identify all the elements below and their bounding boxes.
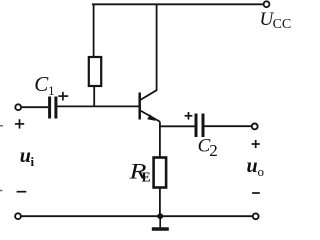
capacitor C1 (50, 97, 56, 119)
wire emitter node to C2 (160, 125, 195, 127)
wire from resistor to base node (93, 86, 95, 107)
terminal input plus (15, 104, 21, 110)
edge speck left middle (0, 125, 3, 127)
svg-text:2: 2 (209, 141, 218, 160)
label C1 (34, 72, 54, 98)
wire C2 to output (203, 125, 252, 127)
terminal input minus (15, 213, 21, 219)
polarity plus of C2 (185, 112, 193, 120)
transistor Q1 (140, 90, 160, 121)
label minus output (252, 192, 260, 194)
label RE (128, 158, 150, 184)
junction dot (157, 213, 163, 219)
terminal output plus (252, 124, 258, 130)
label C2 (198, 136, 218, 160)
label uo (247, 155, 265, 179)
edge speck left lower (0, 190, 2, 192)
label UCC (260, 9, 292, 32)
svg-text:o: o (258, 164, 265, 179)
label minus input (17, 191, 27, 193)
terminal UCC (264, 1, 270, 7)
terminal output minus (253, 213, 259, 219)
svg-text:C: C (34, 72, 49, 96)
wire base (56, 105, 139, 107)
polarity plus of C1 (58, 92, 68, 101)
capacitor C2 (196, 114, 203, 138)
svg-text:u: u (20, 145, 31, 167)
svg-text:CC: CC (273, 17, 291, 32)
resistor RE (154, 158, 167, 188)
wire emitter node down to RE (159, 122, 161, 158)
wire from rail to bias resistor (93, 4, 95, 57)
svg-text:1: 1 (48, 84, 54, 98)
wire top supply rail (92, 3, 264, 5)
svg-text:i: i (31, 154, 35, 169)
label plus output (252, 140, 260, 148)
svg-text:E: E (142, 169, 151, 184)
wire RE to ground rail (159, 188, 161, 217)
ground (152, 216, 169, 229)
resistor R1 (base bias, unlabeled) (89, 57, 101, 86)
label ui (20, 145, 35, 169)
wire input to C1 (21, 106, 48, 108)
wire bottom rail (21, 215, 253, 217)
wire collector to rail (156, 4, 158, 91)
label plus input (15, 119, 24, 128)
svg-text:u: u (247, 155, 258, 177)
